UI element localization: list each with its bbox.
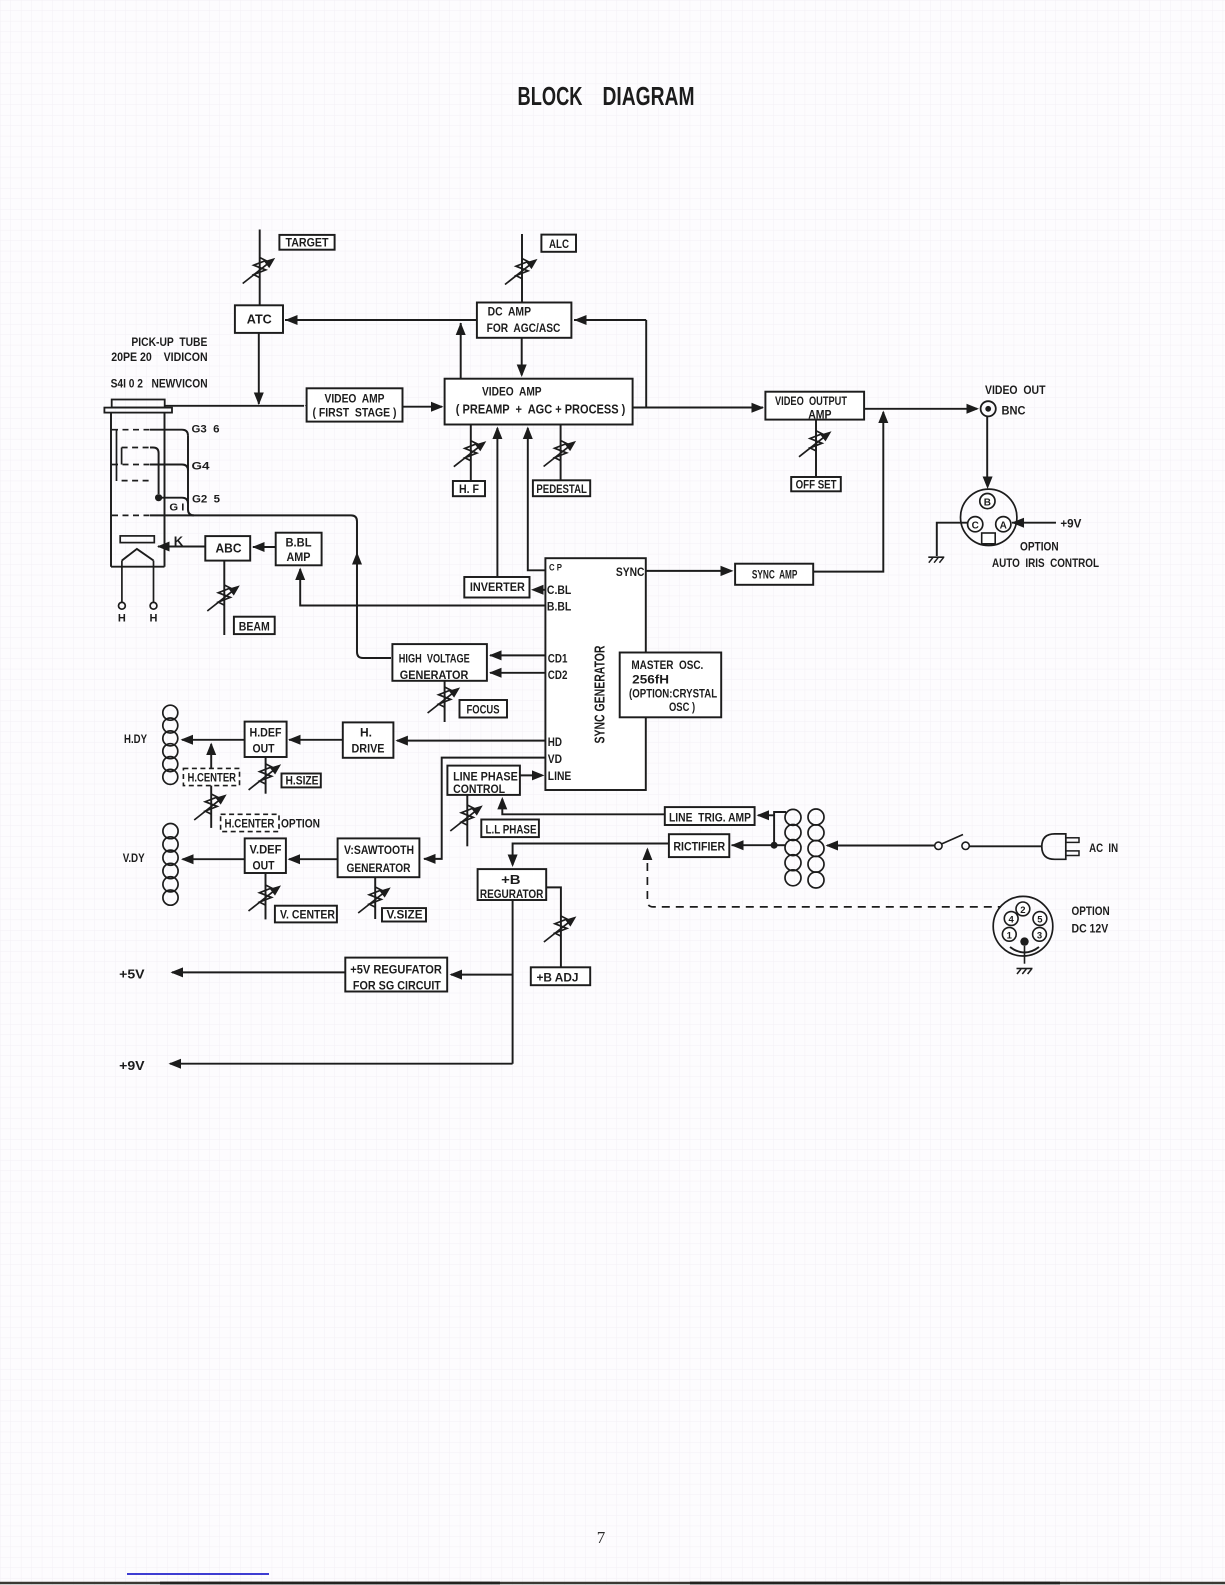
block VIDEO AMP (FIRST STAGE) [307, 388, 403, 421]
wire H.DRIVE to H.DEF OUT [288, 735, 343, 745]
svg-text:OUT: OUT [253, 742, 276, 756]
svg-text:+9V: +9V [119, 1059, 145, 1073]
wire inverter to preamp [492, 427, 502, 578]
svg-text:+5V: +5V [119, 968, 145, 982]
svg-text:MASTER OSC.: MASTER OSC. [631, 658, 703, 672]
svg-text:BNC: BNC [1002, 403, 1026, 417]
svg-text:BEAM: BEAM [239, 619, 270, 633]
wire first stage to preamp [403, 402, 444, 412]
label box L.L PHASE [481, 820, 539, 838]
svg-text:VIDEO AMP: VIDEO AMP [325, 392, 385, 406]
potentiometer PEDESTAL [544, 441, 577, 467]
svg-text:LINE: LINE [548, 769, 572, 783]
block V.SAWTOOTH GENERATOR [338, 838, 420, 877]
wire transformer tap to RICTIFIER [731, 840, 786, 850]
wire BNC to auto iris connector [983, 417, 993, 490]
label box V.SIZE [382, 908, 426, 921]
wire SYNC AMP to video out line [813, 411, 888, 572]
power switch [935, 835, 970, 850]
tube inner electrode (G4 body) [122, 448, 159, 495]
svg-text:256fH: 256fH [632, 672, 669, 686]
svg-text:+9V: +9V [1060, 516, 1081, 530]
tube electrode bus vertical [188, 436, 194, 516]
svg-text:AC IN: AC IN [1089, 841, 1118, 855]
wire preamp to H.F pot [470, 425, 472, 482]
svg-text:GENERATOR: GENERATOR [400, 668, 469, 682]
svg-text:B.BL: B.BL [286, 536, 312, 550]
svg-text:B: B [984, 498, 991, 509]
svg-text:VD: VD [548, 752, 562, 766]
wire video output amp to OFF SET pot [815, 420, 817, 477]
wire rectifier to +B regulator [508, 844, 669, 868]
wire +B regulator to +B ADJ pot [546, 887, 561, 967]
label box TARGET [279, 235, 334, 250]
potentiometer H.CENTER OPTION [194, 794, 227, 820]
wire +9V into pin A [1012, 516, 1082, 530]
DIN pin 2 [1016, 902, 1030, 916]
svg-text:H.CENTER: H.CENTER [188, 773, 237, 785]
svg-text:PICK-UP TUBE: PICK-UP TUBE [131, 337, 207, 349]
potentiometer FOCUS [428, 687, 461, 713]
wire ABC to BEAM pot [223, 561, 225, 635]
wire +B to +5V regulator [450, 970, 513, 980]
wire +5V output [119, 967, 345, 981]
wire B.BL line to B.BL AMP [295, 568, 545, 606]
svg-text:ATC: ATC [247, 313, 272, 327]
block HIGH VOLTAGE GENERATOR [392, 644, 487, 682]
svg-text:OPTION: OPTION [281, 817, 320, 831]
svg-text:TARGET: TARGET [286, 238, 329, 250]
DIN pin 3 [1033, 927, 1047, 941]
coil transformer right winding [808, 809, 824, 888]
wire preamp to PEDESTAL pot [560, 425, 562, 481]
ground auto iris [928, 557, 944, 563]
svg-text:OPTION: OPTION [1072, 904, 1110, 918]
svg-text:H.DEF: H.DEF [250, 726, 282, 740]
tube dashed line (G3 box bottom) [122, 480, 151, 482]
wire V.DEF OUT to V.CENTER pot [265, 873, 267, 919]
wire ATC to video line [254, 333, 264, 405]
wire AC switch to transformer [826, 841, 935, 851]
tube cathode plate [120, 536, 154, 543]
svg-text:ALC: ALC [549, 239, 569, 251]
tube pin labels [169, 424, 220, 514]
label box BEAM [234, 617, 275, 634]
block VIDEO AMP (PREAMP+AGC+PROCESS) [445, 379, 633, 425]
label box OFF SET [791, 477, 841, 491]
potentiometer V.SIZE [358, 887, 391, 913]
page number 7 [597, 1528, 606, 1547]
svg-text:FOCUS: FOCUS [467, 703, 500, 717]
svg-text:V.SIZE: V.SIZE [387, 909, 423, 921]
svg-text:REGURATOR: REGURATOR [480, 887, 544, 901]
svg-text:C.BL: C.BL [547, 583, 571, 597]
svg-text:+B ADJ: +B ADJ [537, 970, 579, 984]
svg-text:V:SAWTOOTH: V:SAWTOOTH [344, 843, 414, 857]
svg-text:AUTO IRIS CONTROL: AUTO IRIS CONTROL [992, 556, 1099, 570]
auto iris keyway notch [982, 533, 996, 544]
coil H.DY deflection yoke [163, 705, 178, 784]
block INVERTER [464, 577, 529, 598]
svg-text:AMP: AMP [287, 550, 311, 564]
wire CD1 to HV generator [489, 650, 545, 660]
svg-text:+B: +B [501, 872, 520, 887]
auto iris pin A [996, 517, 1011, 532]
tube G4 line [112, 465, 188, 471]
svg-text:CD2: CD2 [548, 668, 568, 682]
svg-text:FOR SG CIRCUIT: FOR SG CIRCUIT [353, 978, 442, 992]
svg-text:V.DEF: V.DEF [250, 842, 282, 856]
svg-text:V.DY: V.DY [123, 853, 145, 865]
wire C.BL to INVERTER [531, 585, 545, 595]
svg-text:BLOCK: BLOCK [518, 83, 583, 111]
AC plug [1042, 834, 1079, 859]
svg-text:( PREAMP + AGC + PROCESS ): ( PREAMP + AGC + PROCESS ) [456, 403, 626, 417]
heater terminals H H [118, 602, 158, 624]
svg-text:3: 3 [1037, 930, 1042, 941]
block ATC [235, 305, 283, 333]
wire video out tap to DC AMP right [574, 315, 646, 407]
ground DC option [1017, 969, 1033, 975]
scan artifact blue line [127, 1573, 269, 1575]
label box V.CENTER [275, 906, 337, 923]
svg-text:FOR AGC/ASC: FOR AGC/ASC [487, 321, 561, 335]
BNC connector VIDEO OUT [981, 401, 996, 416]
potentiometer TARGET [243, 258, 276, 284]
svg-text:G4: G4 [192, 460, 211, 472]
svg-text:OUT: OUT [253, 858, 276, 872]
potentiometer BEAM [207, 585, 240, 611]
auto iris connector circle [961, 489, 1017, 545]
block +5V REGUFATOR FOR SG CIRCUIT [345, 958, 447, 993]
svg-text:HD: HD [548, 735, 562, 749]
svg-text:VIDEO AMP: VIDEO AMP [482, 384, 542, 398]
svg-text:SYNC GENERATOR: SYNC GENERATOR [593, 645, 609, 743]
tube electrode G3 dashed line and bus [112, 430, 188, 436]
svg-text:ABC: ABC [216, 542, 242, 556]
svg-text:H.SIZE: H.SIZE [286, 776, 319, 788]
wire CP to preamp [523, 427, 546, 571]
wire B.BL AMP to ABC [252, 542, 276, 552]
block V.DEF OUT [245, 838, 286, 873]
label K (cathode) [174, 534, 184, 549]
svg-text:1: 1 [1007, 930, 1013, 941]
block H.DEF OUT [245, 722, 287, 757]
block VIDEO OUTPUT AMP [765, 392, 864, 422]
svg-text:(OPTION:CRYSTAL: (OPTION:CRYSTAL [629, 687, 717, 701]
svg-text:OFF SET: OFF SET [796, 479, 837, 491]
auto iris pin C [968, 517, 983, 532]
DC 12V DIN connector circle [993, 896, 1053, 956]
block LINE PHASE CONTROL [447, 766, 520, 796]
wire tube target to first stage [165, 401, 317, 411]
wire VD to V.SAWTOOTH [423, 758, 545, 864]
svg-text:HIGH VOLTAGE: HIGH VOLTAGE [399, 652, 470, 666]
wire +9V output [119, 1059, 512, 1073]
block +B REGURATOR [478, 869, 547, 901]
block ABC [205, 536, 250, 561]
wire TARGET pot to ATC [259, 230, 261, 306]
svg-text:OPTION: OPTION [1020, 539, 1059, 553]
wire V.SAWTOOTH to V.SIZE pot [374, 877, 376, 919]
DIN center dot and ground wire [1010, 937, 1039, 963]
potentiometer L.L PHASE [450, 805, 483, 831]
svg-text:RICTIFIER: RICTIFIER [673, 840, 725, 854]
block LINE TRIG. AMP [665, 807, 755, 825]
wire HD to H.DRIVE [395, 736, 545, 746]
svg-text:CONTROL: CONTROL [453, 782, 505, 796]
wire transformer to LINE TRIG. AMP [757, 810, 787, 845]
coil V.DY deflection yoke [163, 824, 178, 906]
svg-text:H.: H. [360, 726, 372, 740]
label box H.CENTER (dashed) [183, 768, 239, 785]
potentiometer V.CENTER [249, 885, 282, 911]
label box FOCUS [460, 700, 508, 718]
potentiometer H.F [454, 441, 487, 467]
labels OPTION DC 12V [1072, 904, 1110, 936]
svg-text:L.L PHASE: L.L PHASE [486, 822, 537, 836]
label box +B ADJ [531, 967, 590, 985]
block RICTIFIER [669, 834, 729, 857]
svg-text:DC AMP: DC AMP [488, 305, 531, 319]
label box H.SIZE [282, 774, 321, 788]
svg-text:2: 2 [1020, 905, 1025, 916]
label box H.CENTER OPTION (dashed) [221, 814, 320, 831]
wire V.SAWTOOTH to V.DEF OUT [288, 854, 338, 864]
svg-text:S4I 0 2 NEWVICON: S4I 0 2 NEWVICON [111, 376, 208, 390]
wire video amp top to feedback line [456, 323, 466, 380]
svg-text:7: 7 [597, 1528, 606, 1547]
wire SYNC to SYNC AMP [646, 566, 734, 576]
DIN pin 1 [1002, 927, 1016, 941]
svg-text:VIDEO OUT: VIDEO OUT [985, 383, 1046, 397]
wire H.CENTER to deflection line [206, 743, 216, 769]
svg-text:G3 6: G3 6 [192, 424, 220, 436]
svg-text:OSC ): OSC ) [669, 700, 695, 714]
svg-text:V. CENTER: V. CENTER [280, 908, 335, 922]
label V.DY [123, 853, 145, 865]
wire HV generator to FOCUS pot [444, 681, 446, 722]
svg-text:DC 12V: DC 12V [1072, 922, 1109, 936]
tube G2 line and junction dot [155, 494, 188, 504]
svg-text:DRIVE: DRIVE [352, 742, 385, 756]
block DC AMP FOR AGC/ASC [477, 303, 572, 338]
svg-text:DIAGRAM: DIAGRAM [603, 83, 695, 111]
svg-text:G I: G I [169, 502, 184, 514]
wire V.DEF OUT to V.DY yoke [181, 854, 245, 864]
svg-text:H: H [150, 613, 158, 625]
svg-text:AMP: AMP [808, 407, 831, 421]
svg-text:H.CENTER: H.CENTER [225, 819, 276, 831]
block MASTER OSC [620, 653, 722, 718]
svg-text:LINE TRIG. AMP: LINE TRIG. AMP [669, 810, 751, 824]
labels VIDEO OUT BNC [985, 383, 1046, 417]
svg-text:+5V REGUFATOR: +5V REGUFATOR [350, 963, 442, 977]
svg-text:CD1: CD1 [548, 652, 568, 666]
potentiometer ALC [505, 259, 538, 285]
svg-text:H: H [118, 613, 126, 625]
wire CD2 to HV generator [489, 668, 545, 678]
svg-text:C P: C P [549, 562, 563, 573]
title BLOCK DIAGRAM [518, 83, 695, 111]
svg-text:H.DY: H.DY [124, 734, 147, 746]
wire +B regulator down distribution [512, 900, 514, 1064]
svg-text:5: 5 [1037, 915, 1043, 926]
tube heater filament [122, 549, 154, 602]
DIN pin 4 [1004, 912, 1018, 926]
svg-text:PEDESTAL: PEDESTAL [536, 484, 587, 496]
svg-text:VIDEO OUTPUT: VIDEO OUTPUT [775, 394, 848, 408]
wire switch to AC plug [969, 845, 1042, 847]
label box ALC [541, 235, 576, 252]
pick-up tube labels [111, 337, 208, 391]
wire LINE TRIG. AMP to LINE PHASE CONTROL [497, 797, 665, 814]
wire ABC to cathode K [157, 542, 205, 552]
pick-up tube envelope [104, 400, 172, 567]
wire H.DEF OUT to H.DY yoke [181, 735, 245, 745]
wire H.DEF OUT to H.SIZE pot [265, 757, 267, 794]
potentiometer H.SIZE [249, 764, 282, 790]
wire video output amp to BNC [864, 404, 979, 414]
svg-text:A: A [1000, 521, 1007, 532]
svg-text:C: C [972, 521, 979, 532]
block SYNC GENERATOR [545, 558, 645, 790]
auto iris pin B [980, 494, 995, 509]
svg-text:B.BL: B.BL [547, 600, 571, 614]
block B.BL AMP [276, 533, 322, 566]
label box PEDESTAL [533, 480, 590, 496]
labels OPTION / AUTO IRIS CONTROL [992, 539, 1099, 570]
svg-text:SYNC: SYNC [616, 565, 645, 579]
wire DC AMP to ATC (AGC feedback) [285, 315, 477, 325]
dashed wire DC option to rectifier line [642, 848, 1001, 907]
wire ALC pot to DC AMP [521, 234, 523, 303]
potentiometer +B ADJ [544, 916, 577, 942]
potentiometer OFF SET [799, 431, 832, 457]
svg-text:4: 4 [1009, 915, 1015, 926]
svg-text:SYNC AMP: SYNC AMP [752, 567, 798, 581]
coil transformer left winding [785, 809, 801, 885]
svg-text:20PE 20 VIDICON: 20PE 20 VIDICON [111, 350, 208, 364]
wire LINE PHASE CONTROL to LINE pin [520, 770, 545, 780]
label H.DY [124, 734, 147, 746]
svg-text:H. F: H. F [459, 484, 479, 496]
wire preamp to video output amp [633, 403, 764, 413]
wire DC AMP down to video amp [517, 338, 527, 377]
svg-text:INVERTER: INVERTER [470, 580, 525, 594]
wire LINE PHASE CONTROL to L.L PHASE pot [466, 795, 468, 846]
block H. DRIVE [343, 722, 394, 757]
scan artifact bottom edge [0, 1582, 1225, 1585]
label AC IN [1089, 841, 1118, 855]
arrow into G1 bus (from HV gen) [352, 552, 362, 565]
wire pin C to ground [937, 523, 968, 556]
label box H.F [453, 481, 485, 496]
tube G3 left bracket [116, 430, 118, 481]
block SYNC AMP [735, 564, 813, 585]
svg-text:( FIRST STAGE ): ( FIRST STAGE ) [313, 406, 397, 420]
sync generator pin labels [547, 562, 645, 783]
DIN pin 5 [1033, 912, 1047, 926]
svg-text:GENERATOR: GENERATOR [347, 861, 411, 875]
svg-text:G2 5: G2 5 [192, 494, 220, 506]
junction dot transformer tap [771, 842, 778, 849]
wire H.CENTER to option pot [210, 786, 212, 828]
wire G1 to high-voltage generator [112, 515, 391, 658]
